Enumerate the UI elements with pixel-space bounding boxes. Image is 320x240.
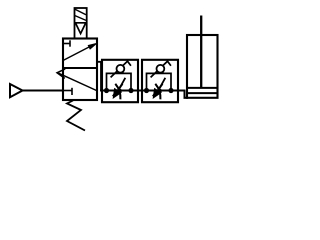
FC1 bypass loop — [107, 73, 132, 90]
wire valve to flow controls (jog) — [97, 62, 101, 91]
FC1 junction dots — [104, 88, 109, 93]
FC2 throttle hub — [158, 89, 162, 93]
FC1 throttle hub — [118, 89, 122, 93]
FC2 throttle arcs — [155, 84, 160, 100]
flow control valve FC2 — [142, 60, 178, 102]
FC2 main line — [142, 90, 178, 92]
wire FC2 to cylinder port — [178, 91, 185, 98]
FC2 junction dots — [144, 88, 149, 93]
FC1 check ball — [117, 65, 125, 73]
spring return at valve bottom — [67, 101, 85, 131]
FC1 adjust arrow — [114, 78, 126, 97]
FC1 check seat — [111, 61, 131, 77]
wire into first flow control — [100, 90, 109, 92]
valve V1 blocked port bottom — [63, 88, 72, 95]
flow control valve FC1 — [102, 60, 138, 102]
cylinder piston — [187, 88, 218, 93]
FC2 check ball — [157, 65, 165, 73]
wire source to valve — [23, 90, 64, 92]
FC1 main line — [102, 90, 138, 92]
FC2 adjust arrow — [154, 78, 166, 97]
valve V1 blocked port top — [63, 40, 70, 46]
air source P1 — [10, 84, 23, 97]
wire between flow controls — [138, 90, 142, 92]
FC2 bypass loop — [147, 73, 172, 90]
FC1 throttle arcs — [115, 84, 120, 100]
valve V1 body — [63, 39, 97, 101]
FC2 check seat — [151, 61, 171, 77]
cylinder A1 barrel — [184, 35, 218, 98]
solenoid pilot actuator on valve top — [75, 8, 87, 39]
cylinder rod — [200, 16, 202, 88]
valve V1 arrow top position — [63, 43, 97, 60]
valve V1 arrow bottom position — [57, 69, 97, 91]
